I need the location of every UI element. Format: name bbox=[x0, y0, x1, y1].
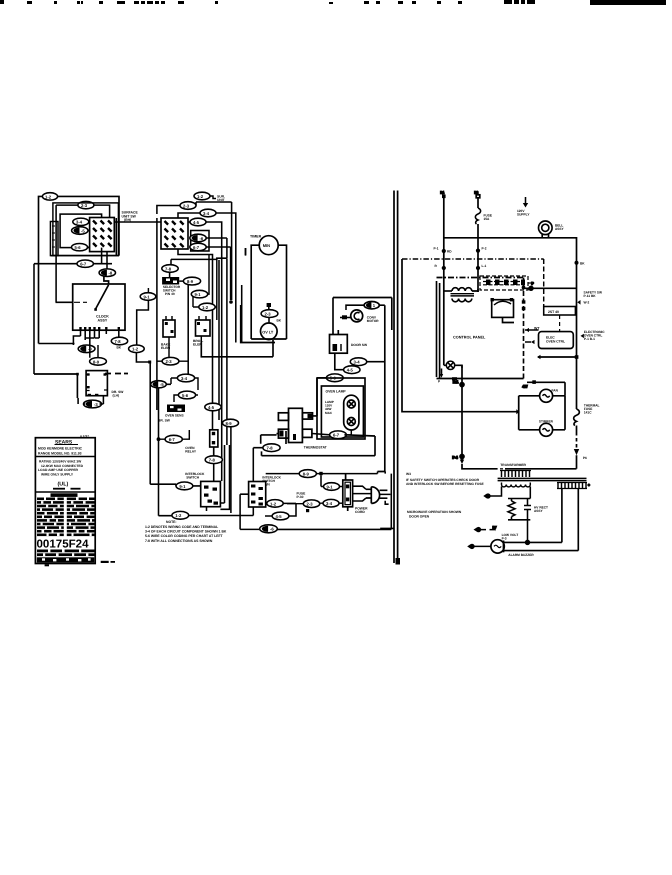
svg-text:9-1: 9-1 bbox=[179, 484, 186, 489]
wire label P10 (dark) bbox=[78, 345, 95, 353]
svg-text:LV: LV bbox=[493, 526, 497, 530]
lamp text block bbox=[325, 400, 334, 415]
wire label Q15 bbox=[223, 202, 239, 513]
svg-text:9-1: 9-1 bbox=[327, 484, 334, 489]
dash-dot boundary bbox=[402, 259, 544, 307]
svg-text:1-2 DENOTES WIRING CODE AND: 1-2 DENOTES WIRING CODE AND TERMINAL bbox=[145, 525, 218, 529]
wire label M1 bbox=[350, 358, 366, 366]
svg-text:7-8: 7-8 bbox=[209, 458, 216, 463]
electronic oven control box bbox=[539, 332, 574, 349]
wire long left loop bbox=[34, 373, 128, 398]
filament left terminal bbox=[483, 487, 501, 499]
svg-text:WIRE ONLY SUPPLY: WIRE ONLY SUPPLY bbox=[41, 473, 74, 477]
main right rail bbox=[576, 262, 578, 449]
wire label P4 (dark) bbox=[72, 227, 91, 235]
wire label P2 bbox=[78, 201, 94, 208]
L1 junction terminals bbox=[434, 247, 453, 271]
svg-text:2-3: 2-3 bbox=[183, 203, 190, 208]
label electronic oven control bbox=[584, 330, 605, 341]
svg-text:1-2: 1-2 bbox=[202, 305, 209, 310]
wire label M4 bbox=[312, 430, 351, 439]
svg-text:BR. SW: BR. SW bbox=[158, 419, 171, 423]
oven sensor block bbox=[167, 405, 185, 413]
svg-text:OV LT: OV LT bbox=[262, 330, 274, 334]
low volt terminal bbox=[474, 526, 497, 532]
svg-text:SUPPLY: SUPPLY bbox=[517, 213, 530, 217]
svg-text:LOAD AMP USE COPPER: LOAD AMP USE COPPER bbox=[38, 468, 79, 472]
svg-text:CONTROL PANEL: CONTROL PANEL bbox=[453, 336, 486, 340]
svg-text:3-4 OF EACH CIRCUIT COMPONENT: 3-4 OF EACH CIRCUIT COMPONENT SHOWN 1 BK bbox=[145, 530, 227, 534]
svg-text:DOOR SW: DOOR SW bbox=[351, 343, 368, 347]
wire label M5 bbox=[253, 444, 280, 516]
relay contact row bbox=[480, 276, 534, 290]
svg-text:BK: BK bbox=[580, 261, 585, 265]
wire label M3 bbox=[317, 374, 343, 382]
svg-text:P-4: P-4 bbox=[453, 456, 458, 460]
arrow into rail at 2ST bbox=[577, 300, 580, 305]
wire label Q1 bbox=[194, 192, 216, 200]
wire label P12 (dark) bbox=[78, 396, 103, 408]
right circuit outer loop bbox=[402, 259, 520, 414]
svg-text:8-9: 8-9 bbox=[93, 359, 100, 364]
wire label Q10 bbox=[193, 259, 217, 320]
interlock text mid bbox=[262, 476, 281, 487]
svg-text:4W: 4W bbox=[523, 385, 528, 389]
wire L1 top feed bbox=[39, 196, 120, 343]
wire label Q20 bbox=[205, 403, 221, 411]
wire label Q5 (dark) bbox=[190, 234, 227, 258]
wire label Q12 bbox=[171, 374, 198, 390]
svg-text:BK: BK bbox=[277, 319, 282, 323]
enclosure box around surface unit switch S1 bbox=[53, 203, 119, 256]
HV transformer primary bbox=[500, 471, 531, 478]
svg-text:1-2: 1-2 bbox=[270, 501, 277, 506]
L2 junction terminals bbox=[476, 247, 487, 271]
svg-text:6-7: 6-7 bbox=[80, 262, 87, 267]
buzzer bbox=[491, 540, 504, 553]
wire bottom of mid box bbox=[262, 435, 376, 456]
wire label Q2 bbox=[180, 202, 196, 210]
svg-text:P-1 B-1: P-1 B-1 bbox=[584, 337, 595, 341]
svg-text:DOOR OPEN: DOOR OPEN bbox=[409, 514, 430, 518]
wire label Q19 bbox=[159, 511, 254, 519]
buzzer terminal bbox=[467, 544, 491, 548]
oven door switch (middle) bbox=[330, 335, 348, 354]
wire label Q16 bbox=[159, 430, 190, 443]
wire label Q3 bbox=[200, 209, 216, 217]
svg-text:L2: L2 bbox=[475, 191, 479, 195]
rail junction dot bbox=[575, 261, 586, 266]
svg-text:5-6: 5-6 bbox=[182, 393, 189, 398]
svg-text:W-2: W-2 bbox=[584, 301, 590, 305]
svg-text:6-7: 6-7 bbox=[169, 437, 176, 442]
svg-text:OVEN CTRL: OVEN CTRL bbox=[546, 340, 565, 344]
svg-text:7-8: 7-8 bbox=[115, 339, 122, 344]
left feed arrow to transformer bbox=[462, 455, 577, 469]
svg-text:8-9: 8-9 bbox=[226, 421, 233, 426]
svg-text:ASSY: ASSY bbox=[555, 227, 565, 231]
svg-text:12.4KW MAX CONNECTED: 12.4KW MAX CONNECTED bbox=[41, 464, 84, 468]
svg-text:2-3: 2-3 bbox=[265, 312, 272, 317]
plate bottom rows bbox=[37, 550, 95, 563]
svg-text:P-1: P-1 bbox=[434, 247, 439, 251]
oven selector switch S2 (hatched block) bbox=[161, 218, 188, 249]
wire label M11 bbox=[265, 503, 296, 519]
wire label T1 bbox=[261, 310, 282, 323]
rating plate heading bbox=[38, 434, 89, 456]
svg-text:A 1727: A 1727 bbox=[80, 434, 89, 438]
svg-text:141C: 141C bbox=[584, 411, 592, 415]
wire label Q7 bbox=[162, 265, 178, 277]
wire label Q8 bbox=[179, 277, 200, 375]
label low voltage bbox=[502, 533, 519, 541]
rating plate table bbox=[35, 438, 95, 564]
wire label Q6 bbox=[190, 243, 231, 300]
note microwave bbox=[407, 510, 462, 518]
wire thermostat loop left bbox=[261, 431, 286, 444]
svg-text:1-2: 1-2 bbox=[45, 194, 52, 199]
svg-text:THERMOSTAT: THERMOSTAT bbox=[304, 446, 328, 450]
wire label M10 bbox=[323, 499, 343, 507]
svg-text:1-2: 1-2 bbox=[197, 194, 204, 199]
motor loop frame bbox=[519, 396, 565, 430]
label HV rect relay bbox=[534, 506, 548, 514]
wire row 2 bbox=[56, 205, 110, 302]
svg-text:+: + bbox=[588, 483, 590, 487]
oven door switch block bbox=[86, 371, 107, 397]
wire label M2 bbox=[344, 366, 360, 374]
lamp capsule with bulbs bbox=[344, 395, 359, 430]
svg-text:4-5: 4-5 bbox=[208, 405, 215, 410]
HV transformer HV secondary bbox=[557, 483, 590, 489]
surface unit switch S1 (hatched block) bbox=[90, 218, 115, 252]
wire row y486 bbox=[150, 484, 201, 486]
svg-text:P-30: P-30 bbox=[297, 495, 304, 499]
clock switch lever bbox=[74, 285, 109, 311]
svg-text:P-2: P-2 bbox=[482, 247, 487, 251]
svg-text:ASSY: ASSY bbox=[98, 318, 108, 322]
plate footer tick bbox=[45, 561, 115, 567]
svg-text:ALARM BUZZER: ALARM BUZZER bbox=[508, 553, 534, 557]
wire label P6 bbox=[77, 260, 93, 267]
svg-text:6-7: 6-7 bbox=[193, 245, 200, 250]
motor loop feed bbox=[523, 380, 566, 396]
wire label P8 bbox=[111, 337, 127, 349]
fan motor bbox=[540, 389, 553, 402]
wire label Q17 bbox=[205, 456, 222, 481]
svg-text:P6: P6 bbox=[583, 456, 587, 460]
relay 2ST box bbox=[544, 307, 576, 332]
control box right edge dots bbox=[522, 286, 526, 311]
UL mark bbox=[53, 482, 81, 490]
L2 riser with oven fuse bbox=[475, 191, 481, 293]
control transformer bbox=[444, 288, 478, 302]
junction M9 bbox=[306, 509, 309, 512]
wire label Q13 (dark) bbox=[151, 381, 171, 516]
note W3 bbox=[406, 472, 484, 486]
control panel box bbox=[437, 278, 524, 379]
relay contact component bbox=[210, 430, 218, 456]
wire S4 bottom bbox=[207, 445, 230, 511]
wire row q2 bbox=[157, 202, 232, 300]
svg-text:SWITCH: SWITCH bbox=[186, 476, 200, 480]
oven light bbox=[261, 323, 278, 340]
svg-text:W3: W3 bbox=[406, 472, 411, 476]
ground arrow bbox=[523, 197, 528, 208]
oven light feed stub bbox=[267, 303, 271, 310]
bake element bbox=[163, 316, 175, 341]
wire label P7 (dark) bbox=[99, 252, 115, 277]
convection loop wires bbox=[333, 298, 392, 335]
label thermal fuse bbox=[584, 404, 600, 415]
svg-text:RD: RD bbox=[447, 250, 452, 254]
svg-text:NOTE:: NOTE: bbox=[166, 520, 177, 524]
wire EOC bottom to rail bbox=[537, 355, 578, 359]
svg-text:R-1: R-1 bbox=[453, 380, 458, 384]
wire row 6 bbox=[34, 248, 112, 374]
wire bottom of S1 cluster bbox=[51, 218, 119, 256]
svg-text:7-8: 7-8 bbox=[165, 266, 172, 271]
svg-text:L1: L1 bbox=[441, 191, 445, 195]
svg-text:AND INTERLOCK SW BEFORE RESETT: AND INTERLOCK SW BEFORE RESETTING FUSE bbox=[406, 482, 484, 486]
svg-text:RELAY: RELAY bbox=[185, 450, 197, 454]
svg-text:9-1: 9-1 bbox=[144, 294, 151, 299]
junction dot M6 row bbox=[319, 472, 322, 487]
rating plate paragraph bbox=[38, 460, 84, 477]
resistor + capacitor pair bbox=[508, 487, 531, 543]
svg-text:TIMER: TIMER bbox=[250, 235, 262, 239]
svg-text:4-5: 4-5 bbox=[347, 368, 354, 373]
wire label Q9 bbox=[191, 255, 209, 307]
svg-text:MIN: MIN bbox=[263, 243, 270, 248]
terminal strip left of surface switch bbox=[50, 222, 58, 256]
vertical bus group bbox=[219, 248, 246, 445]
secondary return loops bbox=[504, 489, 579, 551]
junction on bus bbox=[229, 300, 233, 304]
wire label CV1 (dark) bbox=[346, 302, 385, 311]
wire label P1 bbox=[42, 193, 57, 200]
svg-text:8-9: 8-9 bbox=[303, 472, 310, 477]
svg-text:(LH): (LH) bbox=[113, 394, 120, 398]
svg-text:4-5: 4-5 bbox=[193, 220, 200, 225]
wiring code chart rows bbox=[37, 493, 95, 536]
power cord plug body bbox=[343, 474, 391, 511]
svg-text:MAX: MAX bbox=[325, 411, 333, 415]
svg-text:8-9: 8-9 bbox=[187, 279, 194, 284]
wire y288 to main rail bbox=[524, 282, 577, 291]
wire row q4 bbox=[114, 222, 221, 481]
wire top rail bbox=[444, 238, 577, 262]
arrows into EOC from panel bbox=[525, 328, 539, 344]
wire broil to timer loop bbox=[201, 340, 273, 357]
broil element bbox=[196, 316, 211, 341]
oven set switch (dark block) bbox=[162, 277, 179, 285]
wire door sw to lamp bbox=[335, 305, 385, 471]
svg-text:4-5: 4-5 bbox=[276, 514, 283, 519]
thermal fuse on rail bbox=[574, 409, 580, 426]
wire label P11 bbox=[90, 345, 107, 365]
svg-text:3-4: 3-4 bbox=[181, 376, 188, 381]
svg-text:2-3: 2-3 bbox=[166, 359, 173, 364]
wire label M7 bbox=[321, 483, 343, 491]
panel drop to transformer rail bbox=[453, 365, 465, 464]
right circuit: L1 riser bbox=[441, 191, 446, 366]
svg-text:MOD KENMORE ELECTRIC: MOD KENMORE ELECTRIC bbox=[38, 447, 83, 451]
wire timer bottom bbox=[241, 248, 275, 343]
wire into clock bbox=[56, 276, 109, 302]
svg-text:L-1: L-1 bbox=[482, 264, 487, 268]
svg-text:00175F24: 00175F24 bbox=[37, 539, 90, 551]
wire label Q14 bbox=[174, 391, 198, 402]
svg-text:9-1: 9-1 bbox=[195, 292, 202, 297]
wire label M8 bbox=[266, 500, 287, 508]
wire label P5 bbox=[72, 244, 92, 251]
rail bottom arrow bbox=[574, 449, 587, 460]
svg-text:5-6 WIRE COLOR CODING PER CHAR: 5-6 WIRE COLOR CODING PER CHART AT LEFT bbox=[145, 534, 224, 538]
wire label Q4 bbox=[190, 218, 206, 226]
junction dot at left bus bbox=[157, 437, 161, 441]
wire clock fanout bbox=[39, 336, 100, 345]
svg-text:MOTOR: MOTOR bbox=[367, 319, 380, 323]
wire label M9 bbox=[287, 500, 323, 508]
wire label M6 bbox=[266, 470, 378, 478]
svg-text:OVEN SENS: OVEN SENS bbox=[165, 414, 184, 418]
wire thermostat right tab up bbox=[313, 378, 318, 416]
minute timer circle bbox=[259, 236, 278, 255]
stirrer motor bbox=[540, 423, 553, 436]
svg-text:6-7: 6-7 bbox=[333, 433, 340, 438]
oven interlock switch block S4 bbox=[201, 481, 221, 506]
wire label Q18 bbox=[176, 482, 193, 490]
svg-text:P-11 BK: P-11 BK bbox=[584, 294, 597, 298]
svg-text:7-8 WITH ALL CONNECTIONS AS: 7-8 WITH ALL CONNECTIONS AS SHOWN bbox=[145, 539, 213, 543]
thermostat body bbox=[278, 408, 312, 442]
wire label P9 bbox=[129, 288, 156, 484]
divider rail pair bbox=[394, 191, 400, 565]
svg-text:TRANSFORMER: TRANSFORMER bbox=[500, 463, 526, 467]
svg-text:2-3: 2-3 bbox=[307, 502, 314, 507]
svg-text:OVEN LAMP: OVEN LAMP bbox=[326, 390, 347, 394]
door bell bbox=[539, 221, 553, 238]
oven lamp assembly box bbox=[317, 378, 365, 439]
svg-text:P/N 40: P/N 40 bbox=[165, 292, 175, 296]
svg-text:P-3: P-3 bbox=[502, 537, 507, 541]
svg-text:7-8: 7-8 bbox=[267, 446, 274, 451]
wire label M12 (dark) bbox=[260, 525, 394, 533]
wire into S3 bbox=[240, 494, 259, 529]
wire label P3 bbox=[73, 218, 91, 225]
HV transformer core bbox=[498, 478, 587, 480]
svg-text:1-2: 1-2 bbox=[132, 347, 139, 352]
svg-text:2ST 40: 2ST 40 bbox=[548, 310, 559, 314]
timer loop frame bbox=[251, 245, 286, 339]
interlock switch block S3 (hatched) bbox=[249, 482, 266, 508]
svg-text:FAN: FAN bbox=[552, 389, 559, 393]
wire row q3 bbox=[178, 213, 236, 343]
wire label Q11 bbox=[157, 341, 188, 365]
enclosure around Q5/Q6 labels bbox=[191, 231, 209, 252]
note text block bbox=[145, 520, 227, 543]
oven relay box bbox=[491, 298, 515, 323]
svg-text:(UL): (UL) bbox=[58, 482, 69, 488]
arrow into rail at EOC bbox=[581, 334, 584, 338]
svg-text:3-4: 3-4 bbox=[76, 220, 83, 225]
svg-text:2-3: 2-3 bbox=[81, 203, 88, 208]
svg-text:3-4: 3-4 bbox=[203, 211, 210, 216]
svg-text:3-4: 3-4 bbox=[354, 360, 361, 365]
wire under S2 bbox=[157, 218, 227, 430]
svg-text:5-6: 5-6 bbox=[75, 245, 82, 250]
svg-text:ASSY: ASSY bbox=[534, 509, 544, 513]
clock terminal pins bbox=[79, 327, 120, 345]
label safety switch bbox=[584, 291, 603, 305]
HV transformer filament secondary bbox=[502, 483, 531, 487]
convection fan motor bbox=[340, 310, 363, 322]
svg-text:STIRRER: STIRRER bbox=[539, 420, 554, 424]
svg-text:1-2: 1-2 bbox=[175, 513, 182, 518]
svg-text:BK: BK bbox=[117, 346, 122, 350]
clock / oven timer box bbox=[73, 284, 125, 330]
svg-text:CORD: CORD bbox=[355, 510, 365, 514]
svg-text:3-4: 3-4 bbox=[326, 501, 333, 506]
svg-text:RANGE MODEL NO. 911.93: RANGE MODEL NO. 911.93 bbox=[38, 451, 82, 455]
mid bus risers bbox=[385, 472, 391, 530]
svg-text:15A: 15A bbox=[484, 217, 491, 221]
indicator lamp in panel bbox=[438, 361, 462, 383]
